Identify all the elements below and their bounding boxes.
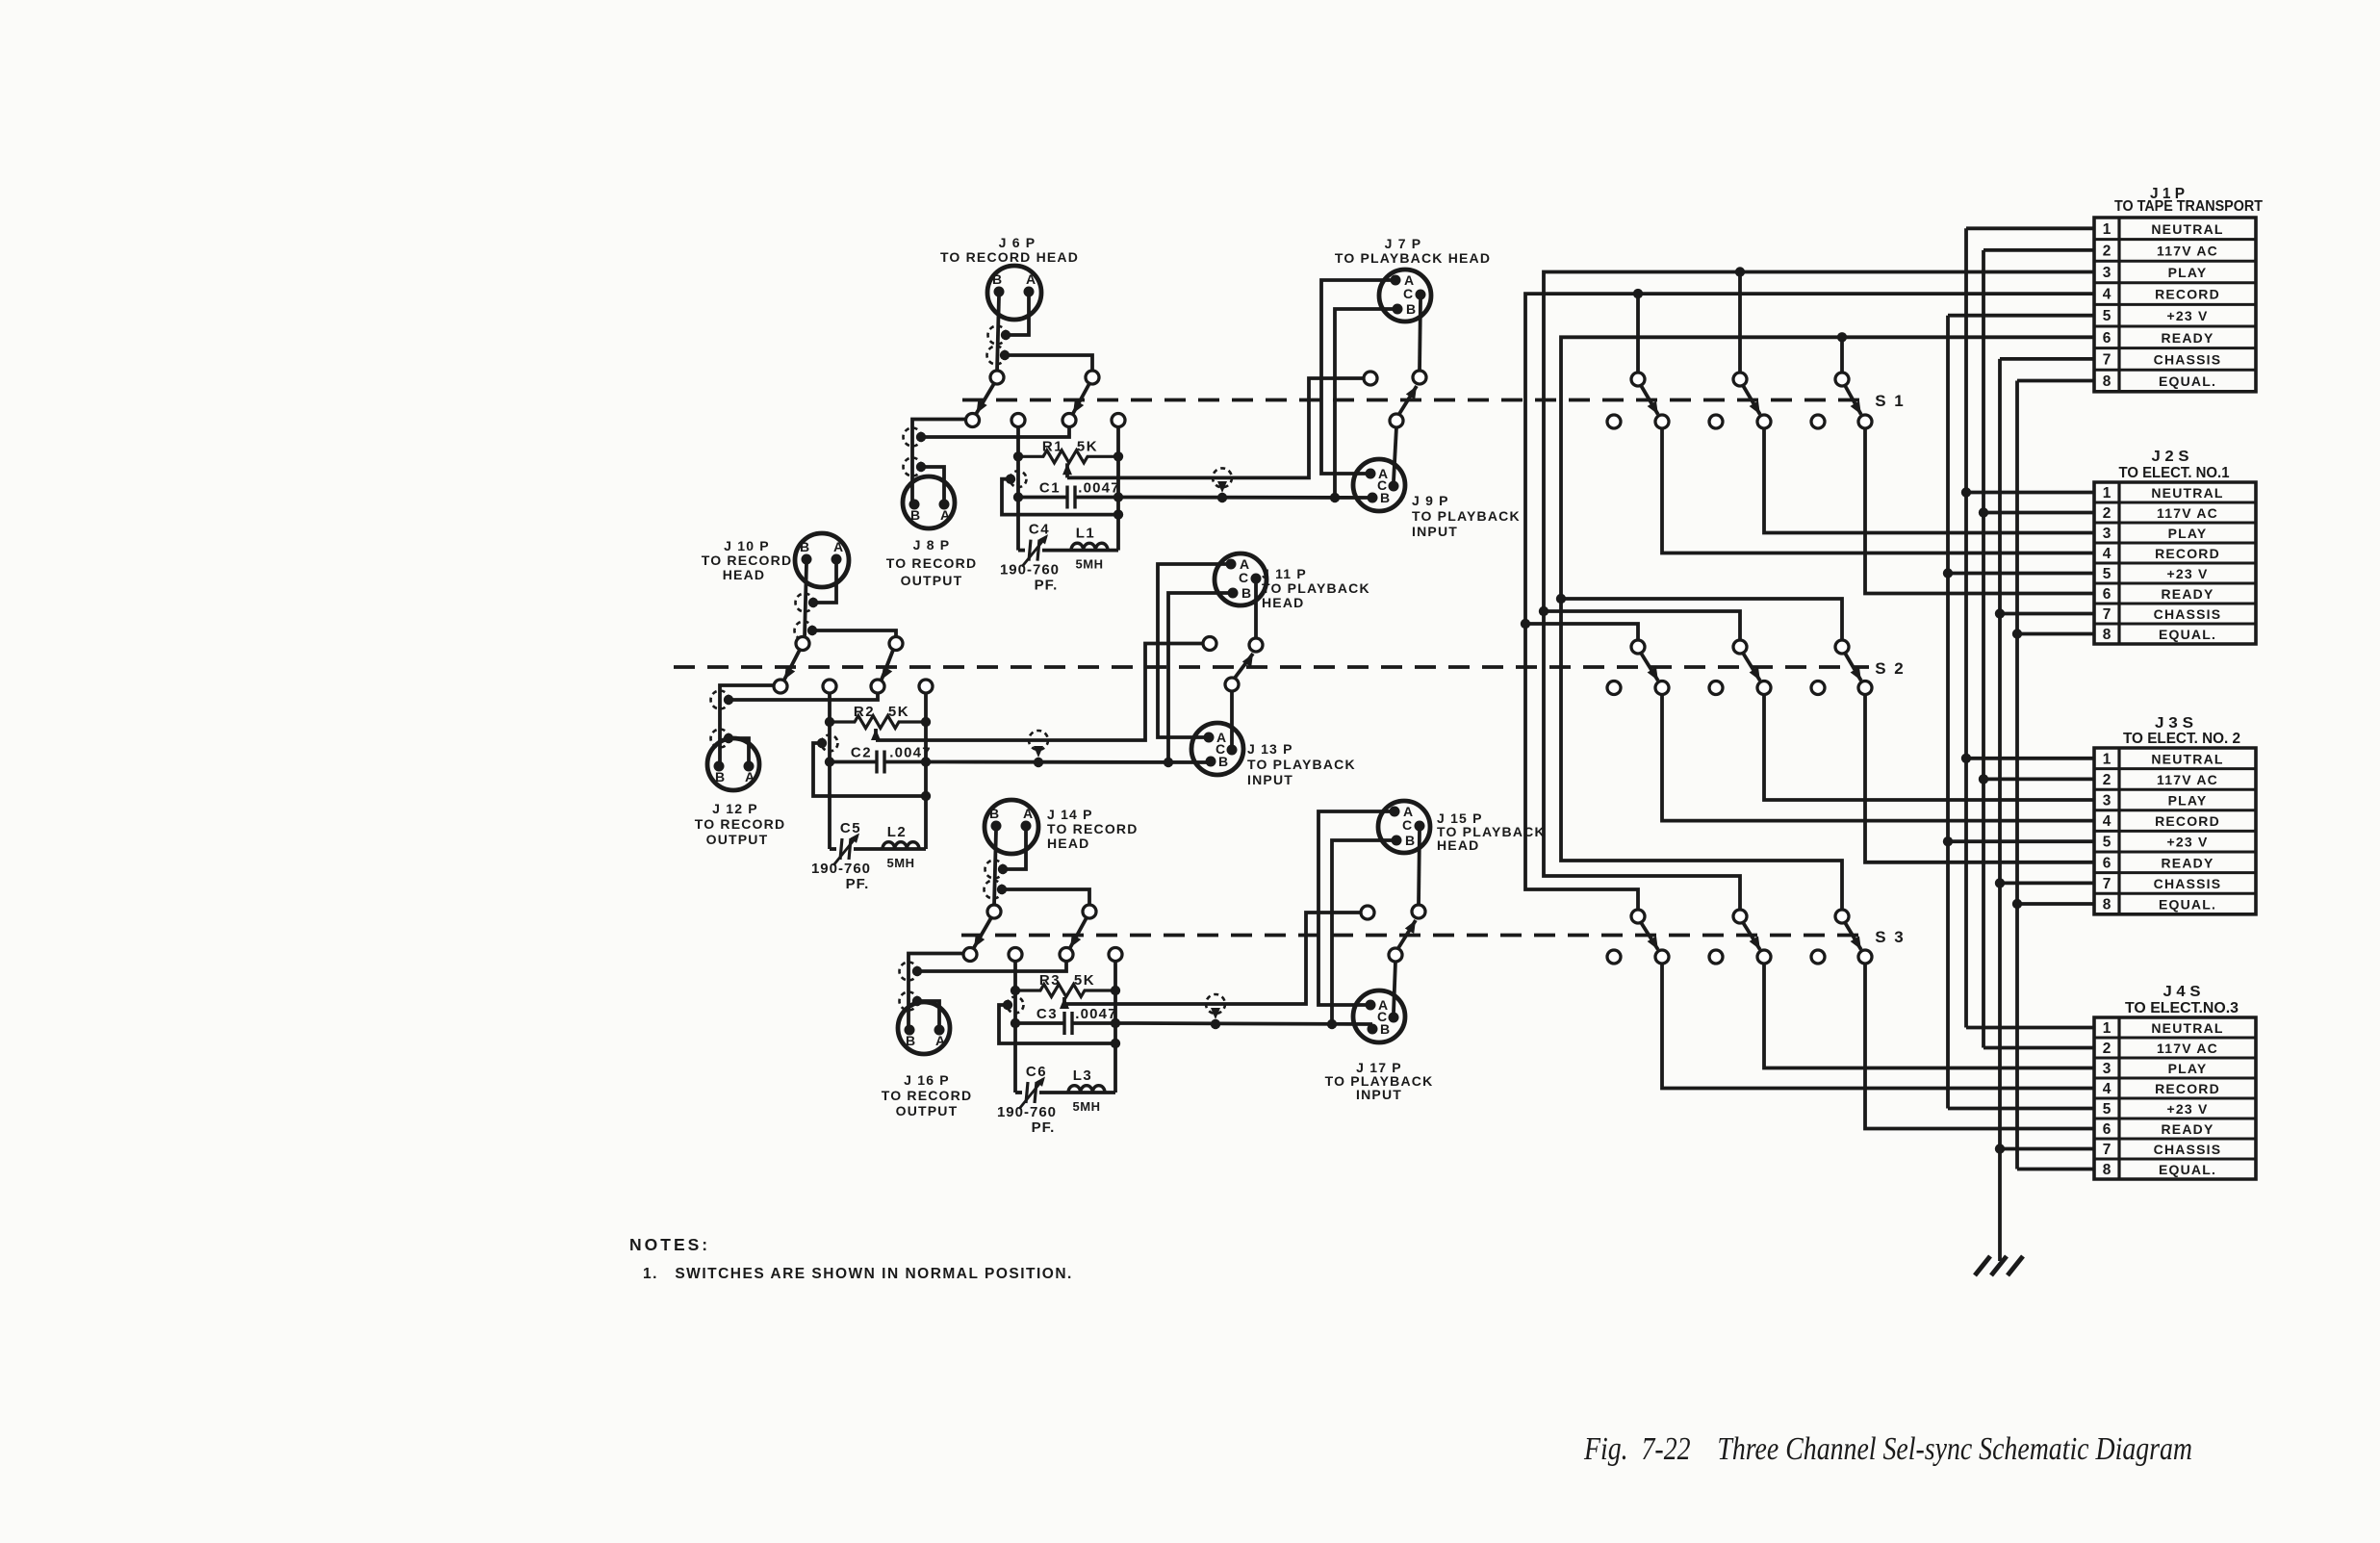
svg-text:C5: C5 [840,820,861,836]
junction R1 right [1113,451,1123,461]
wire mid line [830,794,926,798]
record switch 1 right pole top contact [1086,371,1099,384]
svg-text:A: A [833,539,843,554]
J14P pin A [1021,821,1032,832]
resistor R1 5K [1018,450,1118,463]
svg-text:8: 8 [2103,1162,2111,1178]
svg-text:117V AC: 117V AC [2157,1041,2218,1056]
svg-text:J 11 P: J 11 P [1262,566,1307,581]
wire S1 pole2 feed [1738,272,1742,374]
J9P pin C [1389,481,1399,492]
svg-text:8: 8 [2103,897,2111,913]
wire J11P B to C line [1168,593,1228,762]
svg-text:B: B [992,271,1002,287]
switch S1 pole2 arm [1743,385,1760,415]
transfer switch 1 top contact [1413,371,1426,384]
feedthrough 1a dot [1001,330,1011,340]
record bus from J1P pin 4 [1525,294,2094,910]
svg-text:1: 1 [2103,1020,2111,1037]
svg-text:RECORD: RECORD [2155,1081,2220,1096]
svg-text:B: B [715,769,725,784]
feedthrough 3a [985,861,1004,879]
svg-text:5MH: 5MH [1076,557,1104,572]
neutral bus (pin 1) [1964,228,1968,1027]
switch S1 pole3 NC contact [1811,415,1825,428]
svg-text:4: 4 [2103,546,2111,562]
dashed gang line switch S3 [961,934,1869,938]
svg-text:J 16 P: J 16 P [904,1072,950,1088]
feedthrough 1f [1213,468,1232,487]
svg-text:EQUAL.: EQUAL. [2159,627,2216,642]
J10P pin B [802,554,812,565]
feedthrough 2b [795,622,813,640]
wire switch S1 pole1 output [1662,428,2094,553]
J9P pin A [1366,469,1376,479]
svg-text:4: 4 [2103,813,2111,830]
wire J14P pin B to record switch [994,830,996,906]
switch S2 pole2 arm [1743,653,1760,681]
svg-text:TO TAPE TRANSPORT: TO TAPE TRANSPORT [2114,198,2263,215]
svg-text:C1: C1 [1039,480,1061,497]
wire record left pole to feed column [720,685,775,765]
wire C1 line to J9P pin B [1118,496,1372,500]
junction S1 pole2 on play bus [1735,267,1745,276]
svg-text:A: A [1026,271,1036,287]
svg-text:2: 2 [2103,505,2111,522]
switch S2 pole2 moving contact [1757,681,1771,695]
feedthrough 1b [987,347,1006,365]
ready bus from J1P pin 6 [1561,337,2094,910]
J13P pin B [1206,757,1216,767]
wire feedthrough to right record pole [812,630,896,638]
switch S3 pole3 arm [1845,922,1861,950]
R3 wiper [1060,997,1069,1009]
switch S2 pole2 top contact [1733,640,1747,654]
svg-text:+23 V: +23 V [2167,1101,2209,1117]
svg-text:B: B [910,507,920,523]
record switch 1 left arm [977,383,995,414]
equal bus (pin 8) [2015,381,2019,1170]
wire J7P A to J9P A [1321,280,1391,474]
svg-text:3: 3 [2103,793,2111,810]
svg-text:NEUTRAL: NEUTRAL [2151,1020,2223,1036]
J7P pin A [1391,275,1401,286]
wire transfer to J17P C [1394,962,1395,1014]
record switch 3 right pole contact [1060,948,1073,962]
svg-text:TO RECORD HEAD: TO RECORD HEAD [940,249,1079,265]
junction R3 left [1011,986,1020,995]
resistor R3 5K [1015,985,1115,997]
svg-text:INPUT: INPUT [1356,1087,1402,1102]
svg-text:C: C [1402,817,1412,833]
svg-text:J 12 P: J 12 P [712,801,758,816]
rail left 1 [1016,426,1020,551]
record switch 1 right arm [1073,383,1090,414]
svg-text:READY: READY [2161,586,2214,602]
connector J10P (record head) [795,533,849,587]
feedthrough 3d [900,992,918,1011]
svg-text:6: 6 [2103,330,2111,347]
record switch 3 right arm [1070,917,1088,948]
svg-text:NOTES:: NOTES: [629,1235,710,1254]
junction equal J3S [2012,899,2022,909]
svg-text:B: B [1380,1021,1390,1037]
svg-text:HEAD: HEAD [1437,837,1479,853]
svg-text:TO RECORD: TO RECORD [702,553,793,568]
junction chassis J3S [1995,878,2005,887]
wire J15P C to transfer contact [1419,831,1420,906]
svg-text:J 10 P: J 10 P [724,538,770,553]
wire switch S2 pole2 output [1764,694,2094,800]
wire feedthrough loop [1002,479,1018,515]
connector J12P (record output) [707,738,759,790]
rail right 3 [1113,961,1117,1043]
svg-text:117V AC: 117V AC [2157,505,2218,521]
svg-text:B: B [906,1033,915,1048]
wire R1 wiper output to sync contact [1067,378,1365,477]
svg-text:J 8 P: J 8 P [913,537,951,553]
connector J9P (playback input) [1353,459,1405,511]
rail contact left 3 [1009,948,1022,962]
switch S1 pole1 top contact [1631,373,1645,386]
wire feedthrough to right record pole [1005,355,1092,372]
rail left 3 [1013,961,1017,1093]
junction R2 right [921,717,931,727]
svg-text:NEUTRAL: NEUTRAL [2151,221,2223,237]
transfer switch 2 top contact [1249,638,1263,652]
svg-text:+23 V: +23 V [2167,566,2209,581]
J16P pin B [905,1025,915,1036]
J15P pin B [1392,836,1402,846]
svg-text:8: 8 [2103,373,2111,390]
switch S2 pole1 top contact [1631,640,1645,654]
rail contact left 1 [1011,414,1025,427]
svg-text:READY: READY [2161,855,2214,870]
switch S1 pole3 top contact [1835,373,1849,386]
record switch 3 left pole contact [963,948,977,962]
wire record output A [921,467,944,501]
switch S1 pole2 NC contact [1709,415,1723,428]
feedthrough 1d dot [916,462,926,472]
svg-text:A: A [940,507,950,523]
wire switch S3 pole3 output [1865,964,2094,1129]
svg-text:8: 8 [2103,627,2111,643]
feedthrough 3a dot [998,864,1008,874]
svg-text:TO ELECT. NO.1: TO ELECT. NO.1 [2119,465,2230,481]
transfer switch 3 NC contact [1361,906,1374,919]
J6P pin B [994,287,1005,297]
wire switch S2 pole3 output [1865,694,2094,862]
svg-text:6: 6 [2103,586,2111,603]
svg-text:5: 5 [2103,308,2111,324]
svg-text:EQUAL.: EQUAL. [2159,897,2216,913]
switch S3 pole1 NC contact [1607,950,1621,964]
svg-text:5: 5 [2103,566,2111,582]
svg-text:190-760: 190-760 [1000,562,1060,579]
wire switch S1 pole2 output [1764,428,2094,533]
junction C3 right [1111,1018,1120,1028]
svg-text:5K: 5K [888,704,909,720]
wire record output A [729,738,749,762]
svg-text:5: 5 [2103,835,2111,851]
svg-text:C: C [1239,570,1248,585]
svg-text:7: 7 [2103,876,2111,892]
+23V bus (pin 5) [1946,316,1950,1109]
svg-text:EQUAL.: EQUAL. [2159,373,2216,389]
svg-text:7: 7 [2103,351,2111,368]
junction C1 right [1113,492,1123,501]
switch S2 pole1 moving contact [1655,681,1669,695]
svg-text:INPUT: INPUT [1412,524,1458,539]
transfer switch 2 NC contact [1203,637,1216,651]
svg-text:4: 4 [2103,287,2111,303]
svg-text:PLAY: PLAY [2168,526,2208,541]
transfer switch 3 arm [1397,920,1416,950]
record switch 1 left pole top contact [990,371,1004,384]
J9P pin B [1368,493,1378,503]
svg-text:2: 2 [2103,243,2111,259]
J14P pin B [991,821,1002,832]
svg-text:S 1: S 1 [1875,392,1906,410]
svg-text:B: B [1241,585,1251,601]
svg-text:TO PLAYBACK: TO PLAYBACK [1247,757,1356,772]
rail contact right 2 [919,680,933,693]
record switch 2 right pole contact [871,680,884,693]
feedthrough 1f arrow [1217,481,1227,493]
svg-text:CHASSIS: CHASSIS [2154,351,2222,367]
record switch 3 left pole top contact [987,905,1001,918]
svg-text:S 2: S 2 [1875,659,1906,678]
junction R3 right [1111,986,1120,995]
switch S3 pole1 arm [1641,922,1658,950]
wire switch S3 pole2 output [1764,964,2094,1068]
junction feedthrough 1f [1217,493,1227,502]
feedthrough 2b dot [807,626,817,635]
svg-text:HEAD: HEAD [1262,595,1304,610]
svg-text:TO PLAYBACK: TO PLAYBACK [1412,508,1521,524]
svg-text:PLAY: PLAY [2168,793,2208,809]
capacitor C2 .0047 line [830,760,876,764]
feedthrough 2c dot [724,695,733,705]
feedthrough 3b [985,881,1003,899]
junction C2 right [921,757,931,766]
switch S3 pole1 moving contact [1655,950,1669,964]
svg-text:NEUTRAL: NEUTRAL [2151,751,2223,766]
J8P pin A [939,500,950,510]
J6P pin A [1024,287,1035,297]
feedthrough 1d [904,458,922,476]
feedthrough 1a [988,326,1007,345]
tank circuit bottom C5 L2 [830,847,836,851]
J17P pin A [1366,1000,1376,1011]
J8P pin B [909,500,920,510]
J13P pin A [1204,733,1215,743]
feedthrough 1c [904,428,922,447]
feedthrough 3e [1008,997,1024,1014]
junction B line [1164,758,1173,767]
svg-text:R2: R2 [854,704,875,720]
transfer switch 1 arm [1398,386,1417,416]
wire feed to right pole contact [917,961,1066,971]
svg-text:7: 7 [2103,1142,2111,1158]
chassis bus (pin 7) [1998,359,2002,1261]
svg-text:OUTPUT: OUTPUT [706,832,769,847]
transfer switch 1 moving contact [1390,414,1403,427]
wire mid line [1018,513,1118,517]
feedthrough 3f arrow [1211,1008,1220,1019]
junction S1 pole3 on ready bus [1837,332,1847,342]
svg-text:OUTPUT: OUTPUT [896,1103,959,1119]
rail contact right 3 [1109,948,1122,962]
svg-text:J 3 S: J 3 S [2155,715,2193,732]
svg-text:CHASSIS: CHASSIS [2154,1142,2222,1157]
svg-text:EQUAL.: EQUAL. [2159,1162,2216,1177]
junction +23V J3S [1943,836,1953,846]
wire switch S2 pole1 output [1662,694,2094,821]
svg-text:C4: C4 [1029,522,1050,538]
junction mid right [1113,509,1123,519]
switch S1 pole1 NC contact [1607,415,1621,428]
record switch 2 left arm [784,649,801,680]
connector J11P (playback head) [1215,553,1267,605]
svg-text:190-760: 190-760 [997,1104,1057,1120]
ground [1975,1256,2023,1275]
wire S1 pole1 feed [1636,294,1640,373]
wire J11P A to J13P A [1158,564,1226,737]
rail right 2 [924,693,928,797]
tank circuit bottom C4 L1 [1018,549,1025,553]
switch S2 pole3 arm [1845,653,1861,681]
J10P pin A [832,554,842,565]
svg-text:INPUT: INPUT [1247,772,1293,787]
transfer switch 3 moving contact [1389,948,1402,962]
feedthrough 3b dot [997,885,1007,894]
switch S3 pole1 top contact [1631,910,1645,923]
junction S2 pole3 feed [1556,594,1566,604]
svg-text:117V AC: 117V AC [2157,243,2218,258]
dashed gang line switch S1 [962,399,1869,402]
svg-text:1: 1 [2103,485,2111,501]
svg-text:5MH: 5MH [887,856,915,870]
svg-text:READY: READY [2161,1121,2214,1137]
svg-text:5: 5 [2103,1101,2111,1118]
junction +23V J2S [1943,568,1953,578]
svg-text:2: 2 [2103,772,2111,788]
wire switch S3 pole1 output [1662,964,2094,1089]
svg-text:C3: C3 [1036,1006,1058,1022]
svg-text:190-760: 190-760 [811,861,871,877]
feedthrough 3e dot [1003,1000,1012,1010]
switch S3 pole3 top contact [1835,910,1849,923]
record switch 3 right pole top contact [1083,905,1096,918]
svg-text:PF.: PF. [1035,578,1059,594]
wire S2 pole1 feed [1525,624,1638,641]
wire C3 line to J17P pin B [1115,1023,1372,1024]
record switch 2 left pole contact [774,680,787,693]
svg-text:J 2 S: J 2 S [2152,449,2189,465]
R2 wiper [871,729,881,740]
switch S2 pole1 arm [1641,653,1658,681]
switch S2 pole3 NC contact [1811,681,1825,695]
svg-text:1: 1 [2103,751,2111,767]
connector J15P (playback head) [1378,801,1430,853]
junction R1 left [1013,451,1023,461]
junction neutral J2S [1961,487,1971,497]
svg-text:3: 3 [2103,526,2111,542]
svg-text:J 9 P: J 9 P [1412,493,1449,508]
wire feedthrough to right record pole [1002,889,1089,906]
junction 117V J3S [1979,774,1988,784]
connector table J2S (TO ELECT. NO.1) [2094,482,2256,644]
junction B line [1330,493,1340,502]
connector J6P (record head) [987,266,1041,320]
svg-text:S 3: S 3 [1875,928,1906,946]
wire mid line [1015,1042,1115,1045]
junction mid right [921,791,931,801]
wire R3 wiper output to sync contact [1064,913,1362,1004]
svg-text:OUTPUT: OUTPUT [901,573,963,588]
record switch 1 left pole contact [966,414,980,427]
feedthrough 2e [822,735,838,752]
switch S1 pole2 top contact [1733,373,1747,386]
svg-text:TO PLAYBACK HEAD: TO PLAYBACK HEAD [1335,250,1491,266]
junction mid right [1111,1039,1120,1048]
svg-text:L1: L1 [1076,526,1096,542]
J12P pin B [714,761,725,772]
junction C3 left [1011,1018,1020,1028]
svg-text:B: B [989,806,999,821]
capacitor C3 .0047 line [1015,1021,1063,1025]
rail contact left 2 [823,680,836,693]
connector J7P (playback head) [1379,270,1431,321]
rail left 2 [828,693,832,850]
transfer switch 3 top contact [1412,905,1425,918]
switch S1 pole1 arm [1641,385,1658,415]
svg-text:117V AC: 117V AC [2157,772,2218,787]
wire transfer to J13P C [1230,691,1234,746]
svg-text:6: 6 [2103,1121,2111,1138]
record switch 3 left arm [974,917,992,948]
svg-text:RECORD: RECORD [2155,287,2220,302]
switch S1 pole3 moving contact [1858,415,1872,428]
J11P pin A [1226,559,1237,570]
play bus from J1P pin 3 [1544,272,2094,911]
junction neutral J3S [1961,754,1971,763]
junction R2 left [825,717,834,727]
wire J15P B to C line [1332,840,1392,1024]
switch S3 pole2 moving contact [1757,950,1771,964]
connector table J4S (TO ELECT. NO.3) [2094,1017,2256,1179]
wire switch S1 pole3 output [1865,428,2094,594]
switch S3 pole2 top contact [1733,910,1747,923]
svg-text:RECORD: RECORD [2155,546,2220,561]
svg-text:TO RECORD: TO RECORD [882,1088,973,1103]
svg-text:TO ELECT.NO.3: TO ELECT.NO.3 [2125,1000,2239,1016]
feedthrough 3d dot [912,996,922,1006]
junction feedthrough 3f [1211,1019,1220,1029]
svg-text:+23 V: +23 V [2167,835,2209,850]
wire transfer to J9P C [1394,427,1396,482]
feedthrough 2d dot [724,733,733,743]
wire S2 pole3 feed [1561,599,1842,641]
junction S2 pole1 feed [1521,619,1530,629]
J17P pin C [1389,1013,1399,1023]
svg-text:.0047: .0047 [1078,480,1120,497]
wire feedthrough loop [813,743,830,796]
junction C1 left [1013,492,1023,501]
svg-text:NEUTRAL: NEUTRAL [2151,485,2223,501]
transfer switch 2 moving contact [1225,678,1239,691]
